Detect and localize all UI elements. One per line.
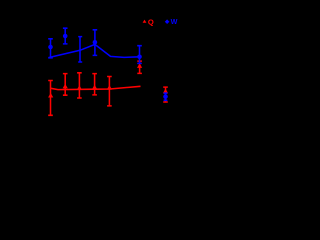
svg-text:W: W [171,17,178,26]
svg-text:Q: Q [148,18,154,27]
